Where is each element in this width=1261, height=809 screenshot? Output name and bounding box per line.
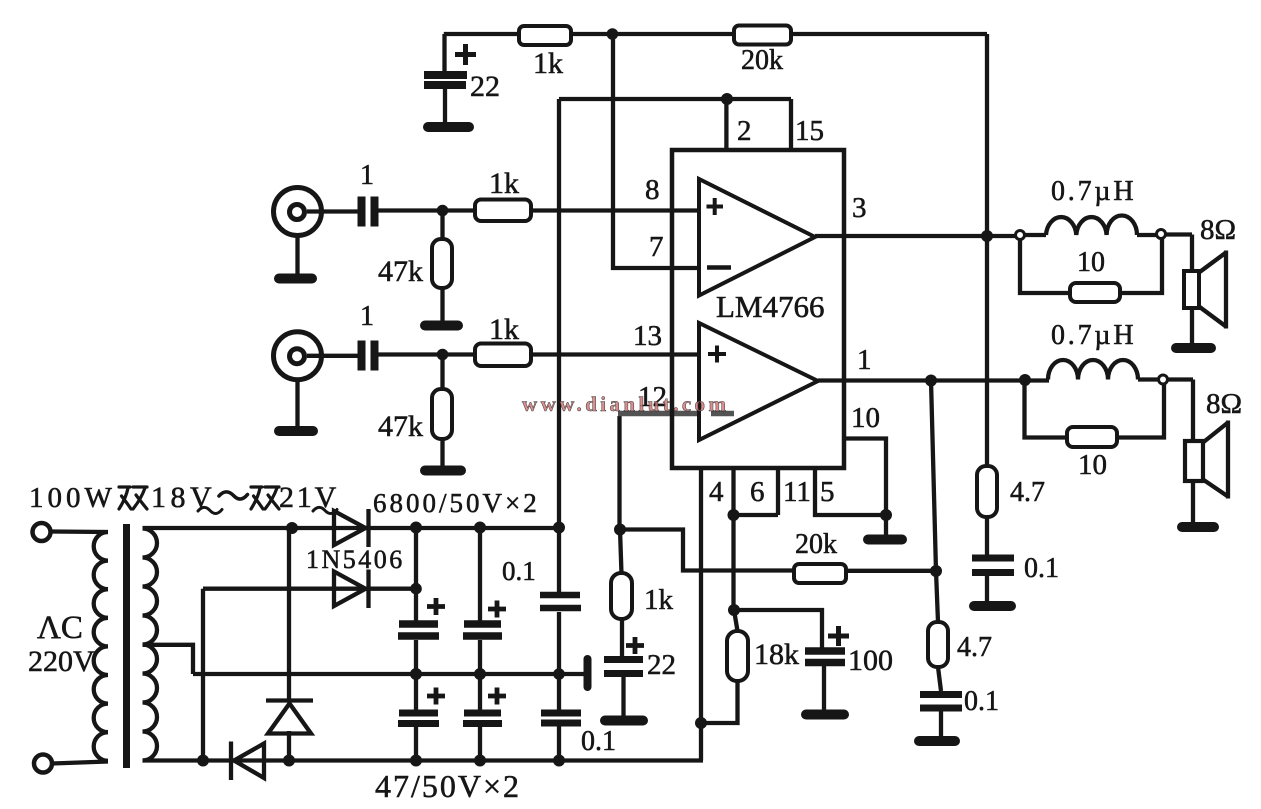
resistor 4.7 Zobel B [928, 622, 948, 667]
svg-text:2: 2 [737, 115, 752, 147]
wire pin 5 lead [815, 468, 886, 515]
svg-text:8Ω: 8Ω [1206, 388, 1242, 420]
resistor 47k ch A [432, 239, 452, 288]
svg-text:10: 10 [1077, 247, 1105, 278]
svg-text:21V: 21V [279, 481, 339, 514]
wire 18k top row to 100uF [734, 610, 822, 651]
svg-text:1: 1 [360, 160, 374, 191]
wire L2 row segments [1138, 380, 1193, 444]
capacitor c1 bottom plus [427, 688, 445, 705]
capacitor 0.1 bottom c3 plates [541, 713, 581, 723]
transformer secondary winding [143, 529, 158, 761]
transformer primary winding [94, 532, 108, 761]
wire pin 2 lead [724, 99, 728, 152]
svg-text:0.7µH: 0.7µH [1051, 320, 1136, 351]
glyph shuang 2 [251, 487, 279, 509]
wire 1k/20k junction down to pin 7 [613, 34, 700, 268]
svg-text:3: 3 [852, 192, 867, 224]
svg-text:www.dianlut.com: www.dianlut.com [522, 392, 729, 416]
svg-text:0.1: 0.1 [964, 686, 999, 717]
resistor 10 ch A [1070, 283, 1120, 302]
wire input row ch A [307, 211, 700, 212]
wire pin 1 output row [818, 378, 1049, 382]
wire input row ch B [307, 355, 700, 356]
inductor L2 0.7uH [1048, 360, 1138, 380]
diode D4 [231, 742, 264, 781]
tilde under V 2 [313, 507, 337, 513]
wire 47k ch B column [440, 355, 444, 467]
capacitor 0.1 top c3 plates [540, 595, 581, 608]
svg-text:22: 22 [470, 70, 500, 103]
capacitor 6800uF c2 top plates [463, 624, 502, 636]
wire 10 ohm loop ch B [1025, 383, 1165, 438]
wire 0V mid rail [193, 672, 559, 676]
wire speaker A stem [1190, 308, 1194, 347]
label tilde mid [219, 492, 248, 499]
svg-text:10: 10 [1078, 449, 1107, 481]
svg-text:8Ω: 8Ω [1200, 214, 1236, 246]
svg-text:22: 22 [647, 649, 676, 681]
wire speaker B stem [1191, 479, 1195, 523]
op-amp A minus input [707, 265, 731, 270]
diode D3 [266, 701, 313, 734]
wire V- bottom rail [143, 758, 704, 762]
svg-text:1k: 1k [644, 584, 674, 616]
capacitor 1uF coupling ch B [362, 341, 375, 371]
op-amp A plus input [707, 198, 724, 215]
svg-text:1k: 1k [533, 47, 563, 80]
resistor 1k feedback ch A [519, 26, 571, 45]
speaker B [1185, 441, 1203, 481]
open terminal circles L1/L2 [1016, 231, 1025, 240]
transformer core [123, 524, 130, 768]
svg-text:1k: 1k [489, 313, 519, 346]
wire pin 3 output row [815, 234, 1016, 238]
svg-text:100W: 100W [29, 482, 116, 514]
wire pin 10 lead [844, 439, 886, 539]
wire 0V stub to lens mark [559, 672, 584, 676]
svg-text:15: 15 [795, 115, 824, 147]
ground speaker A [1176, 343, 1211, 353]
wire V+ rail [143, 526, 560, 530]
wire filter column 2 [478, 528, 482, 761]
resistor 1k input ch A [475, 200, 531, 222]
resistor 20k feedback ch A [734, 26, 791, 45]
svg-text:18k: 18k [754, 638, 799, 671]
svg-text:5: 5 [820, 476, 835, 508]
ground 22uF ch B [605, 716, 643, 726]
resistor 4.7 Zobel A [977, 466, 997, 517]
IC LM4766 body [672, 150, 844, 468]
capacitor 0.1 Zobel A plates [972, 558, 1014, 573]
wire 47k ch A column [440, 211, 444, 323]
wire feedback vertical right (top row to pin3 node to 4.7 Zobel A) [985, 34, 989, 466]
resistor 18k [727, 631, 748, 681]
wire pin 12 row (under watermark) [618, 411, 704, 417]
capacitor 6800uF c1 top plates [398, 624, 439, 636]
capacitor 6800uF c1 bottom plates [398, 713, 439, 724]
svg-text:4.7: 4.7 [1010, 477, 1045, 508]
wire primary terminal leads [51, 532, 109, 764]
capacitor 100uF plates [805, 651, 845, 663]
svg-text:13: 13 [633, 320, 662, 352]
wire transformer center tap jog [143, 645, 194, 674]
ground pins 5 and 10 [868, 535, 902, 545]
wire V+ riser [557, 99, 561, 592]
ground 47k ch A [425, 321, 458, 331]
svg-text:1k: 1k [489, 167, 519, 200]
wire Zobel B column [931, 381, 941, 738]
wire 18k stems [701, 610, 738, 723]
wire pin 6 lead down to 18k [731, 468, 735, 610]
node dots [607, 28, 619, 40]
svg-text:0.1: 0.1 [502, 556, 536, 586]
svg-text:0.1: 0.1 [1024, 553, 1059, 584]
wire L1 row segments [1025, 235, 1192, 273]
ground 22uF ch A [428, 122, 469, 132]
capacitor 6800uF c2 bottom plates [463, 713, 502, 724]
wire Zobel A stems [985, 517, 989, 602]
diode D1 1N5406 [334, 509, 369, 547]
terminal primary top [33, 523, 51, 541]
svg-text:47/50V×2: 47/50V×2 [375, 768, 521, 804]
capacitor 22uF feedback ch A plates [424, 75, 467, 85]
diode D2 1N5406 [334, 570, 369, 609]
wire top feedback row ch A [444, 32, 987, 36]
glyph shuang 1 [119, 487, 147, 509]
svg-text:220V: 220V [28, 645, 95, 678]
speaker A [1184, 271, 1199, 308]
jack B (RCA input) [274, 332, 322, 380]
resistor 1k shunt ch B [611, 573, 632, 619]
terminal primary bottom [34, 755, 52, 773]
svg-text:0.7µH: 0.7µH [1051, 176, 1136, 207]
svg-text:6: 6 [750, 476, 765, 508]
svg-text:4.7: 4.7 [957, 632, 992, 663]
svg-text:47k: 47k [378, 410, 423, 443]
svg-text:1N5406: 1N5406 [306, 545, 405, 574]
wire 20k feedback row ch B [620, 530, 936, 571]
wire D3 column [287, 528, 291, 761]
resistor 20k feedback ch B [794, 564, 846, 583]
capacitor c1 top plus [427, 598, 445, 615]
resistor 10 ch B [1067, 427, 1117, 447]
svg-text:20k: 20k [741, 45, 783, 76]
capacitor 100uF plus [828, 626, 849, 646]
ground Zobel A [974, 601, 1011, 611]
ground speaker B [1182, 522, 1214, 532]
wire 100uF stem [822, 666, 826, 712]
wire pin 15 lead [789, 99, 793, 152]
ground 47k ch B [425, 466, 461, 476]
wire pin 12 vertical [617, 416, 621, 530]
jack A (RCA input) [274, 188, 322, 236]
wire jack A stem [295, 235, 299, 276]
svg-text:ΛC: ΛC [37, 610, 83, 646]
svg-text:4: 4 [709, 476, 724, 508]
svg-text:47k: 47k [378, 255, 423, 288]
inductor L1 0.7uH [1046, 215, 1137, 235]
wire D2 row [203, 587, 416, 591]
ground 100uF [806, 710, 844, 720]
capacitor 0.1 Zobel B plates [920, 695, 962, 709]
capacitor 22uF ch A plus [455, 44, 476, 65]
wire 10 ohm loop ch A [1020, 238, 1162, 293]
wire jack B stem [295, 380, 299, 429]
wire filter column 3 stems [557, 612, 561, 761]
wire pin 11 lead [734, 468, 779, 515]
svg-text:8: 8 [645, 174, 660, 206]
svg-text:0.1: 0.1 [581, 726, 616, 757]
svg-text:LM4766: LM4766 [716, 289, 825, 324]
ground jack A [279, 274, 312, 284]
svg-text:100: 100 [848, 644, 893, 677]
ground Zobel B [919, 736, 955, 746]
svg-text:6800/50V×2: 6800/50V×2 [373, 488, 540, 518]
svg-text:11: 11 [783, 476, 811, 508]
svg-text:1: 1 [857, 344, 872, 376]
svg-text:7: 7 [649, 231, 664, 263]
op-amp B plus input [708, 346, 726, 363]
capacitor 22uF ch B plus [626, 637, 644, 654]
op-amp B minus input [711, 411, 734, 417]
tilde under V 1 [198, 507, 222, 513]
op-amp A triangle [699, 179, 815, 296]
wire filter column 1 [414, 528, 418, 761]
resistor 47k ch B [432, 389, 452, 439]
node lens mark [584, 659, 592, 687]
svg-text:20k: 20k [795, 529, 837, 560]
wire bottom secondary riser [201, 589, 205, 761]
wire pin 4 supply column [699, 468, 703, 761]
wire 22uF ch A column [442, 34, 447, 123]
op-amp B triangle [699, 323, 818, 440]
capacitor c2 top plus [488, 601, 506, 618]
svg-text:1: 1 [360, 301, 374, 332]
capacitor 22uF shunt ch B plates [604, 660, 643, 674]
ground jack B [279, 426, 313, 436]
svg-text:10: 10 [851, 402, 880, 434]
wire 1k/22 shunt ch B column [620, 530, 624, 719]
wire V+ row to pins 2 and 15 [559, 97, 791, 101]
capacitor c2 bottom plus [488, 688, 506, 705]
resistor 1k input ch B [475, 344, 531, 367]
capacitor 1uF coupling ch A [362, 197, 375, 227]
